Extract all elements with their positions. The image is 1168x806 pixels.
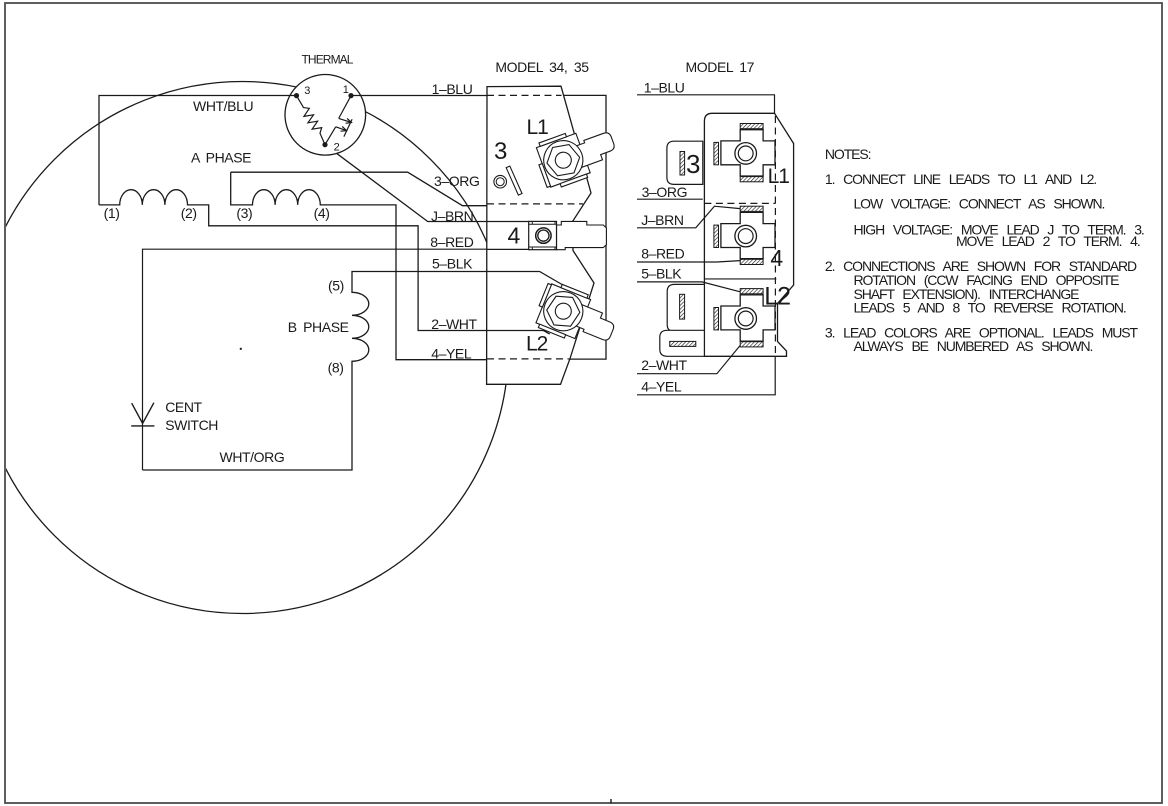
svg-text:L2: L2 bbox=[764, 282, 790, 310]
svg-text:L2: L2 bbox=[526, 332, 548, 355]
svg-text:2–WHT: 2–WHT bbox=[641, 357, 687, 373]
model 17 wire 3-ORG bbox=[637, 198, 703, 200]
terminal 4 block (model 17) bbox=[714, 206, 775, 264]
svg-text:L1: L1 bbox=[768, 165, 790, 188]
svg-text:1–BLU: 1–BLU bbox=[432, 81, 473, 97]
wire J-BRN lead from thermal terminal 2 bbox=[325, 145, 487, 222]
L2 ring terminal assembly bbox=[531, 279, 621, 353]
hidden wire dashes 4-YEL bbox=[487, 358, 569, 360]
terminal L1 block (model 17) bbox=[714, 124, 775, 182]
svg-text:THERMAL: THERMAL bbox=[302, 52, 354, 66]
wire WHT/BLU top rail left segment bbox=[99, 96, 297, 205]
svg-text:4–YEL: 4–YEL bbox=[641, 378, 682, 394]
svg-text:1. CONNECT LINE LEADS TO L1 A: 1. CONNECT LINE LEADS TO L1 AND L2. bbox=[825, 171, 1096, 187]
svg-text:(3): (3) bbox=[236, 205, 252, 221]
thermal heater resistor 3 to 2 bbox=[297, 96, 326, 145]
terminal L2 block (model 17) bbox=[714, 289, 775, 347]
tab blank horizontal (model 17 bottom) bbox=[660, 330, 705, 356]
svg-text:CENT: CENT bbox=[165, 399, 202, 415]
thermal switch contact from terminal 1 bbox=[325, 96, 352, 145]
svg-text:3–ORG: 3–ORG bbox=[642, 184, 687, 200]
cent switch symbol bbox=[131, 403, 154, 426]
svg-text:(2): (2) bbox=[181, 205, 197, 221]
svg-text:4–YEL: 4–YEL bbox=[431, 345, 472, 361]
svg-text:LEADS 5 AND 8 TO REVERSE ROTAT: LEADS 5 AND 8 TO REVERSE ROTATION. bbox=[854, 300, 1126, 316]
svg-text:1: 1 bbox=[343, 84, 349, 96]
wire 5-BLK stub inside box bbox=[487, 272, 563, 285]
tab blank (model 17 lower) bbox=[667, 284, 704, 331]
wire J-BRN stub inside box bbox=[487, 221, 529, 223]
model 17 wire 2-WHT bbox=[637, 345, 740, 373]
junction dot terminal 2 bbox=[322, 142, 327, 147]
model 17 wire 5-BLK bbox=[637, 282, 740, 292]
svg-text:2–WHT: 2–WHT bbox=[431, 316, 477, 332]
wire 8-RED stub inside box bbox=[487, 248, 529, 250]
svg-text:WHT/BLU: WHT/BLU bbox=[193, 98, 253, 114]
connector 4 ring bbox=[536, 228, 551, 243]
junction dot terminal 3 bbox=[294, 93, 299, 98]
stray dot bbox=[240, 348, 242, 350]
wire 1-BLU rail from thermal terminal 1 to model box bbox=[351, 95, 487, 97]
svg-text:2: 2 bbox=[334, 141, 340, 153]
svg-text:1–BLU: 1–BLU bbox=[644, 79, 685, 95]
svg-text:3: 3 bbox=[494, 138, 507, 165]
model 17 wire 8-RED bbox=[637, 261, 740, 262]
svg-text:MODEL 17: MODEL 17 bbox=[686, 59, 755, 75]
svg-text:WHT/ORG: WHT/ORG bbox=[220, 449, 285, 465]
model 17 wire 4-YEL bbox=[637, 356, 775, 395]
MODEL 34,35 connector body bbox=[487, 86, 594, 384]
svg-text:J–BRN: J–BRN bbox=[641, 212, 683, 228]
svg-text:LOW VOLTAGE: CONNECT AS SHOWN.: LOW VOLTAGE: CONNECT AS SHOWN. bbox=[854, 196, 1105, 212]
wire 5-BLK lead and B phase coil bbox=[143, 272, 487, 471]
svg-text:A PHASE: A PHASE bbox=[191, 149, 251, 165]
connector 4 plug (model 34,35) bbox=[557, 221, 607, 249]
model 17 hidden wire dashes vertical bbox=[774, 116, 776, 356]
svg-text:5–BLK: 5–BLK bbox=[432, 256, 473, 272]
svg-text:MODEL 34, 35: MODEL 34, 35 bbox=[495, 59, 589, 75]
hidden wire dashes 3-ORG bbox=[487, 203, 583, 205]
junction dot terminal 1 bbox=[348, 93, 353, 98]
connector 4 body (model 34,35) bbox=[529, 221, 557, 249]
svg-text:5–BLK: 5–BLK bbox=[641, 265, 682, 281]
border tick mark bbox=[610, 799, 612, 804]
svg-text:(8): (8) bbox=[328, 360, 344, 376]
model 17 wire J-BRN bbox=[637, 206, 740, 228]
svg-text:(5): (5) bbox=[328, 278, 344, 294]
model 17 wire 1-BLU bbox=[637, 95, 775, 114]
wire 3-ORG lead bbox=[231, 172, 487, 206]
svg-text:3: 3 bbox=[304, 85, 310, 97]
svg-text:J–BRN: J–BRN bbox=[431, 208, 473, 224]
svg-text:3: 3 bbox=[686, 149, 700, 179]
svg-text:8–RED: 8–RED bbox=[641, 246, 684, 262]
wire 8-RED lead bbox=[143, 249, 487, 470]
svg-text:3–ORG: 3–ORG bbox=[434, 173, 479, 189]
svg-text:B PHASE: B PHASE bbox=[288, 319, 349, 335]
svg-text:(4): (4) bbox=[314, 205, 330, 221]
svg-text:NOTES:: NOTES: bbox=[825, 146, 871, 162]
hidden wire dashes 1-BLU bbox=[487, 94, 562, 96]
svg-text:ALWAYS BE NUMBERED AS SHOWN.: ALWAYS BE NUMBERED AS SHOWN. bbox=[854, 338, 1093, 354]
motor body circle bbox=[0, 82, 509, 614]
grommet 3 pin bar bbox=[506, 166, 522, 195]
svg-text:SWITCH: SWITCH bbox=[165, 417, 218, 433]
model 34,35 outer wire rail right bbox=[564, 95, 607, 359]
svg-text:4: 4 bbox=[770, 245, 783, 271]
svg-text:(1): (1) bbox=[104, 205, 120, 221]
wire 2-WHT stub inside box bbox=[487, 331, 550, 335]
svg-text:4: 4 bbox=[508, 222, 521, 248]
svg-text:MOVE LEAD 2 TO TERM. 4.: MOVE LEAD 2 TO TERM. 4. bbox=[956, 233, 1140, 249]
MODEL 17 housing bbox=[704, 113, 793, 356]
A phase coil 1 bbox=[99, 190, 487, 331]
A phase coil 2 bbox=[231, 172, 487, 360]
svg-text:8–RED: 8–RED bbox=[430, 234, 473, 250]
L1 ring terminal assembly bbox=[532, 119, 622, 192]
model 17 section divider bbox=[704, 278, 776, 280]
grommet 3 circle bbox=[494, 175, 507, 188]
model 17 hidden wire dashes horizontal bbox=[704, 202, 775, 204]
thermal protector circle bbox=[285, 75, 366, 156]
tab 3 (model 17) bbox=[667, 141, 703, 184]
svg-text:L1: L1 bbox=[527, 116, 549, 139]
